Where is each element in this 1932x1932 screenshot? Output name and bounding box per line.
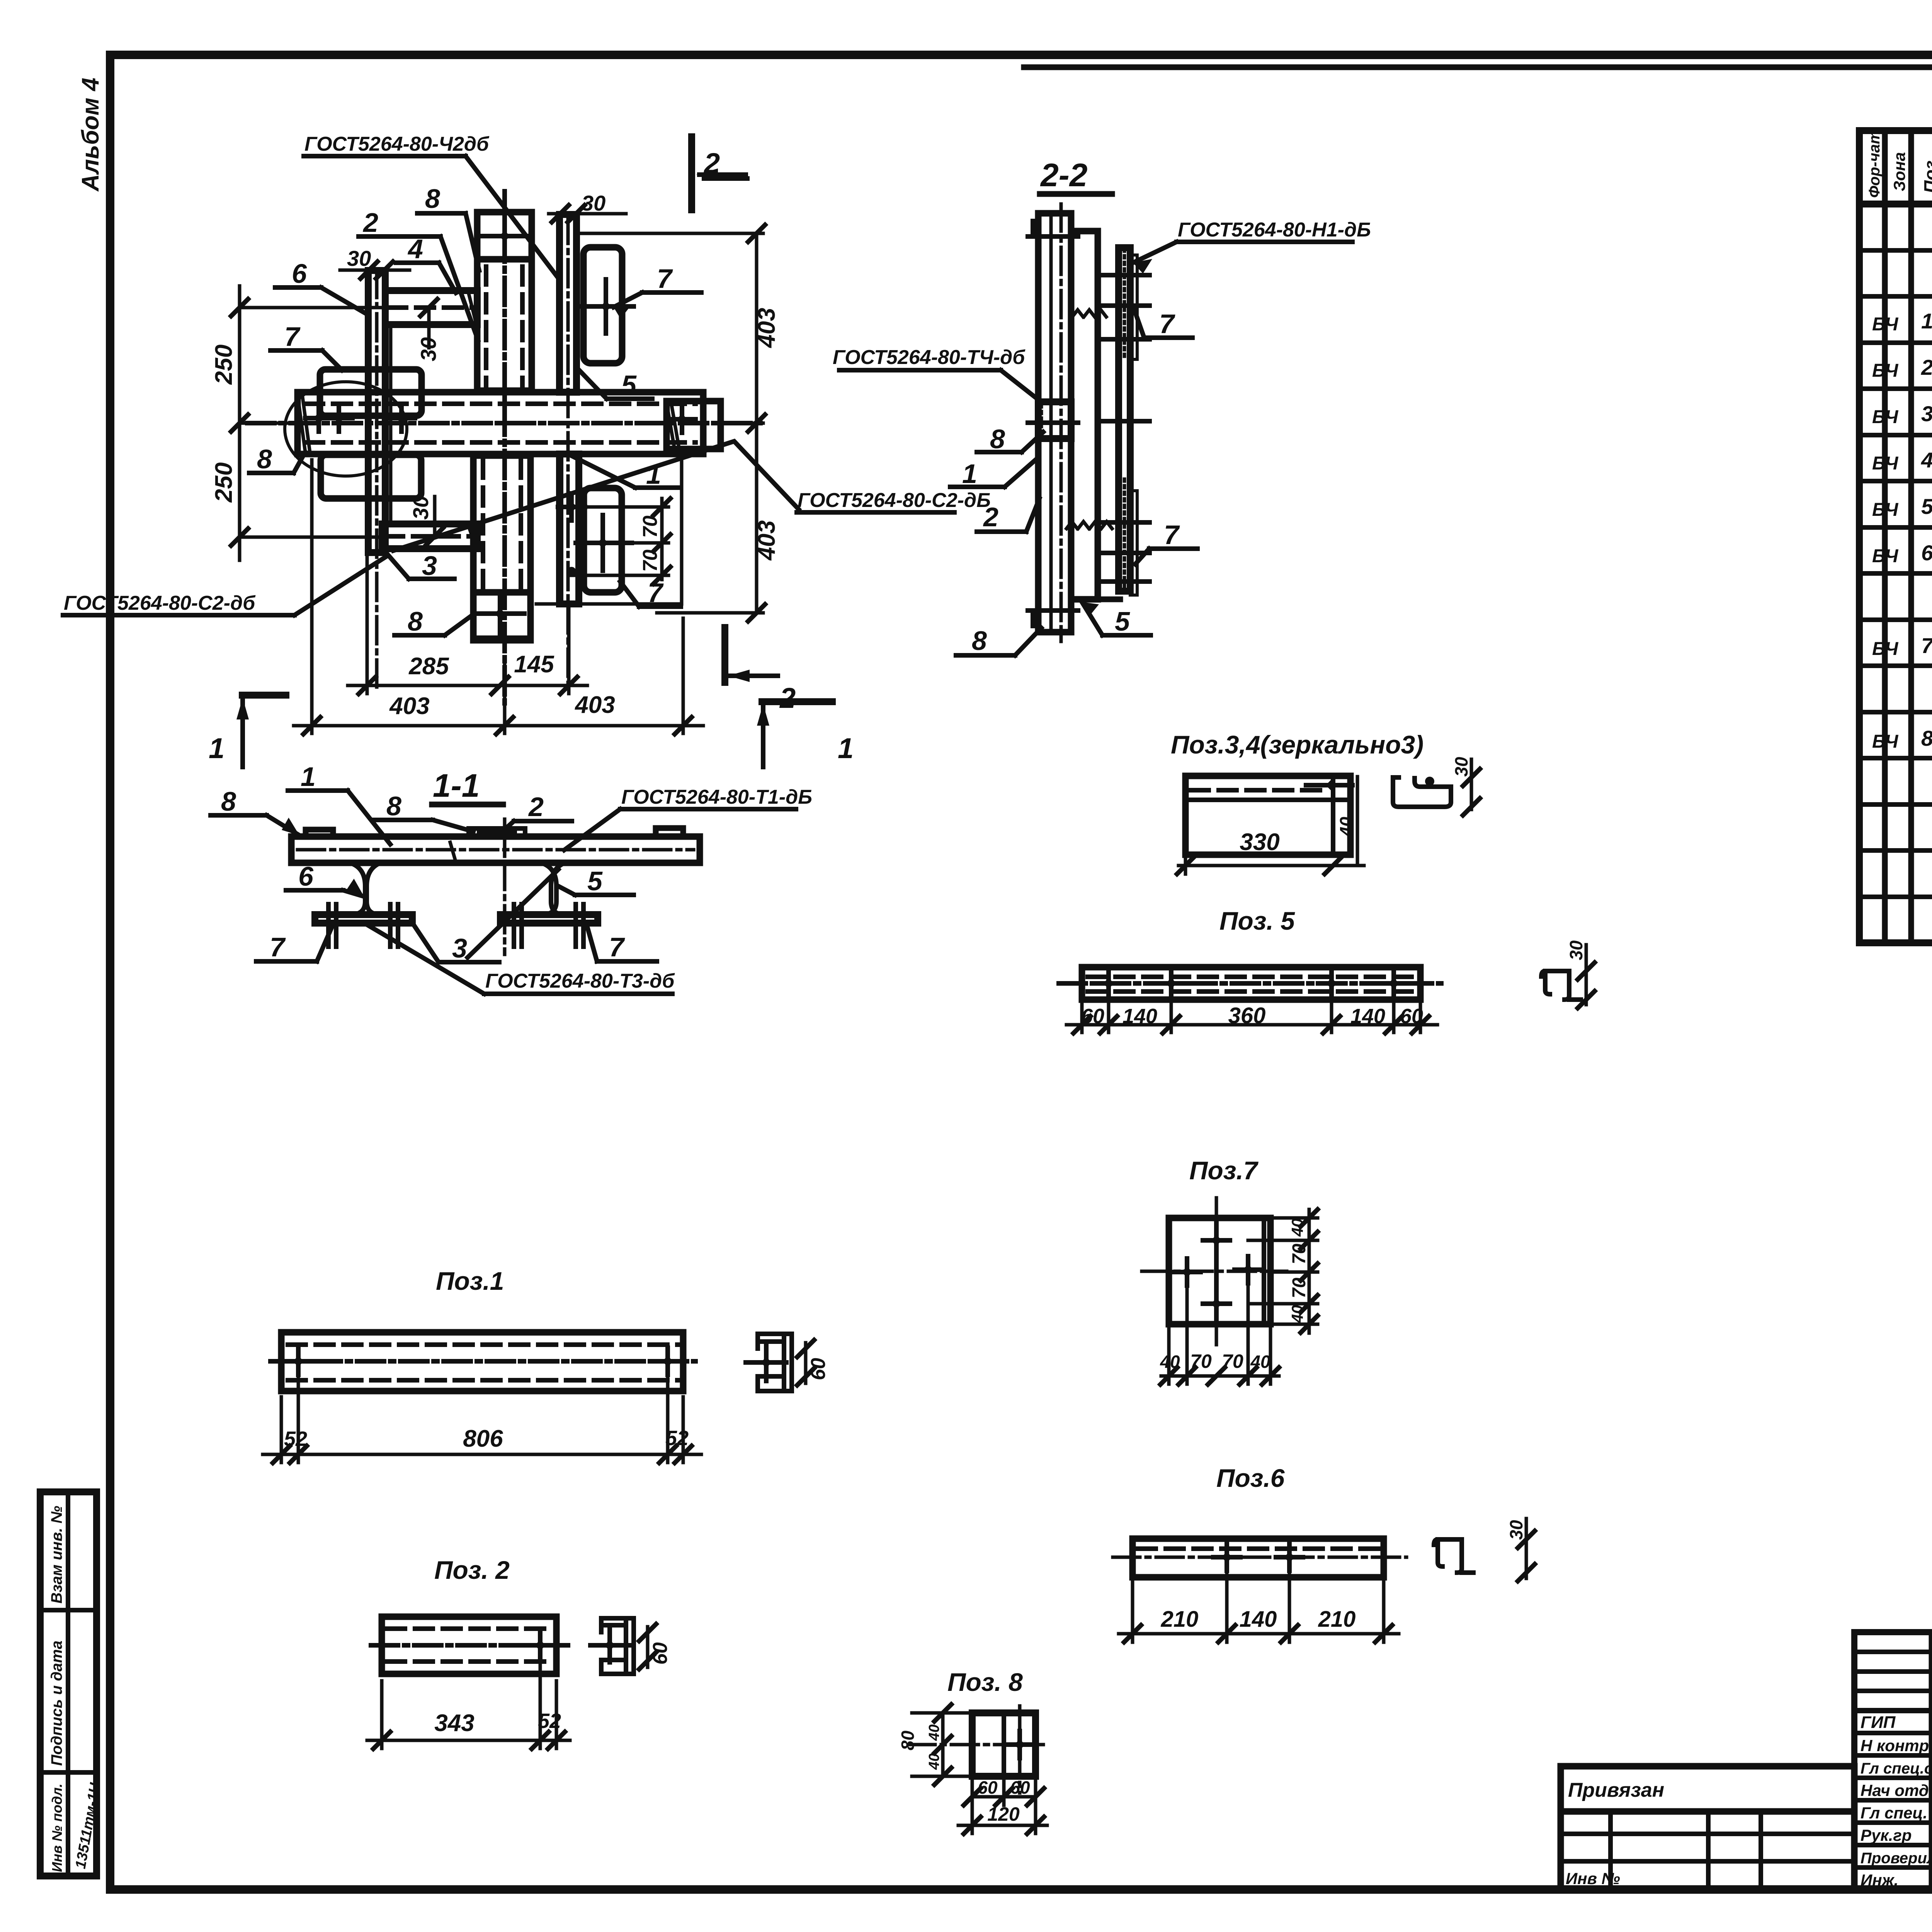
svg-text:5: 5 — [621, 370, 637, 400]
dim 30 connector 3 — [408, 496, 443, 545]
svg-text:5: 5 — [1921, 494, 1932, 519]
callout 2 top — [359, 207, 478, 340]
pos8 dims — [898, 1704, 1047, 1834]
2-2 callout 8 mid — [977, 424, 1043, 454]
callout 7 upper-left — [270, 321, 342, 370]
svg-text:6: 6 — [298, 861, 314, 891]
annex lower grid with Инв № — [1561, 1811, 1854, 1890]
spec table column headers — [1866, 130, 1932, 198]
pos1 dims 52/806/52 — [263, 1370, 701, 1463]
dim 30 left (strip 6) — [340, 246, 410, 279]
pos1 bar — [270, 1332, 696, 1391]
pos2 bar — [371, 1617, 568, 1674]
svg-text:7: 7 — [648, 578, 664, 608]
specification table grid — [1859, 131, 1932, 943]
svg-text:8: 8 — [408, 606, 423, 636]
1-1 left channel — [315, 863, 412, 947]
2-2 bar item 2 — [1033, 213, 1071, 632]
svg-text:Поз. 8: Поз. 8 — [947, 1668, 1023, 1696]
svg-text:806: 806 — [463, 1425, 503, 1452]
2-2 beam cross item 8 pad — [1038, 402, 1071, 439]
1-1 callout 5 — [560, 866, 634, 896]
svg-text:7: 7 — [1921, 633, 1932, 658]
svg-text:145: 145 — [514, 651, 554, 678]
2-2 callout 7 bottom — [1135, 520, 1197, 564]
weld label GOST5264-80-Т3-Δ6 — [366, 924, 675, 994]
1-1 callout 2 — [502, 792, 572, 832]
weld seams on beam flanges — [406, 391, 667, 455]
svg-text:403: 403 — [389, 693, 429, 719]
callout 8 left — [249, 444, 305, 474]
svg-text:Гл спец.: Гл спец. — [1861, 1804, 1927, 1822]
1-1 callout 3 — [412, 869, 558, 963]
1-1 callout 8 mid — [373, 791, 473, 832]
2-2 callout 2 — [977, 498, 1039, 532]
svg-text:60: 60 — [649, 1642, 672, 1665]
1-1 callout 7 left — [256, 924, 333, 962]
svg-text:4: 4 — [407, 234, 423, 264]
top channel item 2 — [477, 259, 532, 392]
weld contour ellipse — [285, 382, 407, 476]
svg-text:2: 2 — [362, 207, 378, 238]
callout 7 lower-right — [620, 578, 681, 608]
svg-text:403: 403 — [753, 308, 780, 349]
1-1 center axis — [503, 819, 507, 954]
svg-text:60: 60 — [1081, 1005, 1104, 1028]
section marker 2 bottom — [725, 624, 796, 714]
weld label GOST5264-80-С2-ЬБ right — [797, 489, 991, 512]
svg-text:30: 30 — [1566, 940, 1586, 960]
pos2 dims 343/52 — [367, 1654, 570, 1749]
svg-text:70: 70 — [1289, 1277, 1310, 1298]
section 1-1 title — [432, 767, 503, 804]
svg-text:Инж.: Инж. — [1861, 1871, 1898, 1889]
svg-text:Поз. 2: Поз. 2 — [434, 1556, 510, 1584]
svg-text:5: 5 — [587, 866, 603, 896]
1-1 right channel — [500, 863, 598, 947]
svg-text:БЧ: БЧ — [1872, 314, 1898, 335]
svg-text:360: 360 — [1228, 1003, 1266, 1028]
pos7 dims bottom 40/70/70/40 — [1160, 1277, 1279, 1384]
svg-text:40: 40 — [1288, 1218, 1306, 1237]
svg-text:7: 7 — [1159, 309, 1175, 339]
callout 5 — [578, 369, 652, 400]
2-2 middle plate item 1 web — [1071, 231, 1120, 599]
pos8 plate — [908, 1706, 1043, 1793]
svg-text:1-1: 1-1 — [433, 767, 480, 804]
1-1 callout 1 — [288, 762, 390, 844]
pos34 bar — [1185, 776, 1352, 855]
section 2-2 title — [1040, 157, 1112, 194]
callout 1 right — [572, 456, 681, 490]
strip item 5 upper part — [560, 214, 577, 392]
svg-text:1: 1 — [962, 459, 977, 489]
svg-text:210: 210 — [1318, 1607, 1356, 1632]
svg-text:Поз.7: Поз.7 — [1189, 1156, 1259, 1185]
pos5 bar — [1059, 967, 1441, 1000]
pos1 title — [436, 1267, 504, 1295]
dim 30 connector 4 — [416, 299, 440, 361]
callout 8 top — [417, 184, 479, 270]
svg-text:Поз.1: Поз.1 — [436, 1267, 504, 1295]
weld label GOST5264-80-С2-Δ6 lower left — [63, 556, 386, 615]
svg-text:2: 2 — [779, 682, 796, 714]
svg-text:ГОСТ5264-80-С2-дБ: ГОСТ5264-80-С2-дБ — [798, 489, 991, 512]
svg-text:30: 30 — [1506, 1520, 1526, 1540]
dim 403/403 right vertical — [577, 225, 780, 621]
svg-text:210: 210 — [1161, 1607, 1199, 1632]
svg-text:БЧ: БЧ — [1872, 361, 1898, 381]
svg-text:1: 1 — [1921, 309, 1932, 333]
svg-text:30: 30 — [347, 246, 371, 270]
2-2 bar axis — [1060, 204, 1063, 641]
beam right end block — [667, 401, 721, 449]
pos34 title — [1171, 730, 1423, 759]
left margin stamp strip table — [40, 1492, 104, 1876]
svg-text:52: 52 — [284, 1427, 307, 1451]
section marker 1 bottom-left — [209, 695, 289, 767]
1-1 weld ticks — [348, 842, 580, 863]
callout 3 — [383, 549, 454, 581]
svg-text:БЧ: БЧ — [1872, 500, 1898, 520]
svg-text:285: 285 — [408, 653, 449, 680]
svg-text:40: 40 — [1250, 1352, 1270, 1372]
central vertical axis — [502, 191, 507, 703]
svg-text:Поз. 5: Поз. 5 — [1219, 906, 1295, 935]
svg-text:5: 5 — [1115, 606, 1130, 636]
lower assembly outline — [536, 454, 682, 604]
svg-text:8: 8 — [972, 626, 987, 656]
svg-text:1: 1 — [301, 762, 316, 792]
spec table rows text — [1872, 216, 1932, 889]
plate item 7 lower left — [321, 455, 421, 498]
svg-text:ГОСТ5264-80-ТЧ-дб: ГОСТ5264-80-ТЧ-дб — [833, 346, 1026, 369]
svg-text:БЧ: БЧ — [1872, 407, 1898, 427]
svg-text:140: 140 — [1350, 1005, 1385, 1028]
svg-text:Подпись и дата: Подпись и дата — [48, 1641, 65, 1766]
svg-text:4: 4 — [1921, 448, 1932, 472]
svg-text:6: 6 — [1921, 541, 1932, 565]
section marker 2 top — [692, 133, 747, 213]
svg-text:250: 250 — [211, 463, 237, 503]
svg-text:Проверил: Проверил — [1861, 1850, 1932, 1867]
pos1 channel section — [746, 1334, 830, 1391]
dim 70/70 lower right — [571, 498, 670, 584]
svg-text:Нач отд: Нач отд — [1861, 1781, 1929, 1799]
2-2 callout 8 bottom — [956, 626, 1041, 656]
svg-text:70: 70 — [1289, 1243, 1310, 1264]
pos5 dims 60/140/360/140/60 — [1066, 992, 1437, 1033]
2-2 weld marks — [1066, 310, 1112, 529]
svg-text:70: 70 — [639, 515, 662, 538]
svg-text:3: 3 — [1921, 401, 1932, 426]
svg-text:Инв №: Инв № — [1566, 1869, 1620, 1888]
annex box Привязан — [1561, 1766, 1854, 1811]
hidden edge line — [389, 325, 393, 524]
svg-text:Взам инв. №: Взам инв. № — [48, 1506, 65, 1604]
strip 5 axis — [566, 216, 570, 688]
svg-text:7: 7 — [284, 321, 301, 352]
connector item 4 — [385, 291, 477, 325]
svg-text:7: 7 — [657, 264, 673, 294]
svg-text:120: 120 — [987, 1803, 1020, 1825]
svg-text:БЧ: БЧ — [1872, 639, 1898, 659]
svg-text:40: 40 — [1288, 1305, 1306, 1323]
svg-text:1: 1 — [209, 732, 224, 764]
pos2 title — [434, 1556, 510, 1584]
dim 250/250 left — [211, 286, 385, 560]
svg-text:8: 8 — [386, 791, 401, 821]
vertical label "Альбом 4" top-left margin — [77, 78, 104, 192]
svg-text:30: 30 — [1451, 757, 1471, 777]
svg-text:30: 30 — [416, 337, 440, 361]
svg-text:40: 40 — [926, 1753, 942, 1770]
svg-text:7: 7 — [270, 932, 286, 962]
pos7 plate — [1142, 1198, 1287, 1345]
2-2 callout 7 top — [1134, 309, 1192, 339]
pos8 title — [947, 1668, 1023, 1696]
section marker 1 bottom-right — [757, 702, 854, 767]
svg-text:330: 330 — [1240, 829, 1279, 855]
2-2 bolt ticks — [1028, 236, 1150, 611]
top plate item 8 — [477, 212, 532, 259]
weld label GOST5264-80-Ч2Δ6 top — [304, 133, 558, 278]
callout 4 — [396, 234, 456, 293]
beam item 1 (horizontal channel) — [298, 392, 703, 454]
pos6 dims 210/140/210 — [1119, 1566, 1399, 1642]
svg-text:52: 52 — [538, 1709, 561, 1733]
svg-text:Альбом 4: Альбом 4 — [77, 78, 104, 192]
weld label GOST5264-80-Н1-ЬБ — [1133, 219, 1371, 274]
strip item 5 lower part — [560, 454, 579, 604]
lower plate item 8 — [473, 592, 531, 640]
beam axis — [247, 421, 763, 425]
svg-text:ГОСТ5264-80-Т3-дб: ГОСТ5264-80-Т3-дб — [485, 970, 675, 992]
pos7 dims right 40/70/70/40 — [1248, 1209, 1318, 1333]
title block grid — [1854, 1632, 1932, 1890]
svg-text:БЧ: БЧ — [1872, 453, 1898, 474]
pos7 title — [1189, 1156, 1259, 1185]
svg-text:Поз.6: Поз.6 — [1216, 1464, 1285, 1492]
weld label GOST5264-80-Т1-ΔБ — [564, 786, 812, 850]
svg-text:8: 8 — [990, 424, 1005, 454]
svg-text:Привязан: Привязан — [1568, 1779, 1664, 1801]
svg-text:52: 52 — [665, 1427, 689, 1450]
svg-text:30: 30 — [582, 191, 605, 215]
plate item 7 lower right — [558, 488, 632, 592]
svg-text:70: 70 — [1190, 1350, 1212, 1372]
svg-text:70: 70 — [639, 549, 662, 572]
top frame doubled line right half — [1024, 65, 1932, 70]
svg-text:40: 40 — [1160, 1352, 1180, 1372]
callout 8 bottom — [395, 606, 473, 636]
svg-text:1: 1 — [838, 732, 854, 764]
connector item 3 — [382, 524, 477, 549]
bolt crosses on beam — [305, 405, 696, 433]
2-2 strip item 5 edge — [1119, 248, 1130, 591]
plate item 7 upper right — [580, 247, 634, 363]
pos34 angle section — [1393, 757, 1480, 815]
svg-text:ГОСТ5264-80-С2-дб: ГОСТ5264-80-С2-дб — [64, 592, 256, 614]
svg-text:БЧ: БЧ — [1872, 546, 1898, 566]
svg-text:343: 343 — [434, 1710, 474, 1736]
dim 403/403 bottom — [294, 460, 703, 734]
svg-text:ГИП: ГИП — [1861, 1713, 1896, 1732]
svg-text:30: 30 — [408, 496, 433, 520]
svg-text:40: 40 — [1336, 816, 1356, 837]
pos5 channel section — [1541, 940, 1595, 1008]
1-1 callout 7 right — [587, 924, 657, 962]
svg-text:Гл спец.о: Гл спец.о — [1861, 1760, 1932, 1777]
svg-text:403: 403 — [574, 692, 615, 718]
weld label GOST5264-80-ТЧ-Δ6 — [833, 346, 1039, 400]
pos6 title — [1216, 1464, 1285, 1492]
svg-text:140: 140 — [1122, 1005, 1157, 1028]
svg-text:2: 2 — [703, 147, 720, 179]
long leader diagonal to С2 label right — [393, 441, 799, 551]
pos6 channel section — [1434, 1519, 1535, 1581]
svg-text:140: 140 — [1240, 1607, 1277, 1632]
title block signatures column — [1861, 1712, 1932, 1889]
callout 7 upper-right — [614, 264, 701, 319]
pos2 channel section — [590, 1618, 672, 1674]
2-2 plate item 7 edges — [1130, 255, 1137, 595]
svg-text:7: 7 — [609, 932, 625, 962]
svg-text:403: 403 — [753, 520, 780, 561]
svg-text:Инв № подл.: Инв № подл. — [49, 1784, 65, 1872]
svg-text:60: 60 — [1400, 1005, 1423, 1028]
svg-text:2-2: 2-2 — [1040, 157, 1087, 193]
svg-text:80: 80 — [898, 1730, 918, 1750]
2-2 callout 1 — [950, 459, 1036, 489]
svg-text:40: 40 — [926, 1725, 942, 1741]
callout 6 — [275, 259, 368, 315]
svg-text:8: 8 — [257, 444, 272, 474]
dim 30 top (strip 5) — [549, 191, 626, 222]
pos6 bar — [1113, 1539, 1406, 1577]
svg-text:ГОСТ5264-80-Т1-дБ: ГОСТ5264-80-Т1-дБ — [621, 786, 812, 808]
svg-text:8: 8 — [1921, 726, 1932, 750]
svg-text:7: 7 — [1164, 520, 1180, 550]
svg-text:Фор-чат: Фор-чат — [1866, 130, 1883, 198]
svg-text:ГОСТ5264-80-Н1-дБ: ГОСТ5264-80-Н1-дБ — [1178, 219, 1371, 241]
1-1 callout 6 — [286, 861, 364, 896]
1-1 callout 8 left — [211, 786, 299, 835]
1-1 beam — [291, 828, 700, 863]
svg-text:3: 3 — [452, 933, 467, 963]
pos34 dims 330/40 — [1177, 777, 1364, 874]
svg-text:60: 60 — [1010, 1777, 1030, 1798]
svg-text:60: 60 — [978, 1777, 998, 1798]
lower channel item 2 — [473, 454, 531, 592]
strip item 6 (left vertical) — [368, 270, 385, 688]
svg-text:6: 6 — [292, 259, 307, 289]
dim 285/145 bottom — [348, 556, 587, 694]
svg-text:8: 8 — [221, 786, 236, 816]
svg-text:2: 2 — [1921, 355, 1932, 379]
svg-text:2: 2 — [528, 792, 544, 822]
svg-text:70: 70 — [1222, 1350, 1243, 1372]
svg-text:60: 60 — [807, 1358, 830, 1380]
svg-text:Рук.гр: Рук.гр — [1861, 1826, 1912, 1844]
svg-text:Поз.: Поз. — [1920, 156, 1932, 193]
svg-text:3: 3 — [422, 551, 437, 581]
svg-text:ГОСТ5264-80-Ч2дб: ГОСТ5264-80-Ч2дб — [304, 133, 490, 155]
2-2 callout 5 — [1082, 602, 1151, 636]
svg-text:Зона: Зона — [1890, 152, 1908, 191]
svg-text:БЧ: БЧ — [1872, 731, 1898, 752]
plate item 7 upper left — [320, 369, 422, 416]
pos5 title — [1219, 906, 1295, 935]
svg-text:2: 2 — [983, 502, 998, 532]
svg-text:Н контр: Н контр — [1861, 1736, 1929, 1755]
svg-text:8: 8 — [425, 184, 440, 214]
svg-text:Поз.3,4(зеркально3): Поз.3,4(зеркально3) — [1171, 730, 1423, 759]
svg-text:250: 250 — [211, 345, 237, 385]
